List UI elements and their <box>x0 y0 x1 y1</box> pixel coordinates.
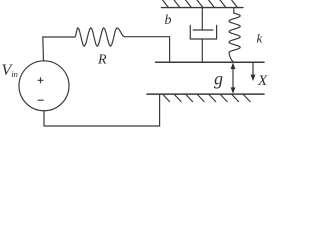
wire: source top to top rail corner <box>43 37 75 61</box>
bottom capacitor plate (fixed, hatched) <box>147 94 264 102</box>
displacement arrow X (downward) <box>251 63 256 81</box>
top capacitor plate (movable) <box>156 61 264 63</box>
damper b (dashpot) <box>190 8 216 63</box>
svg-text:k: k <box>257 31 263 46</box>
svg-text:Vin: Vin <box>2 62 18 79</box>
svg-text:X: X <box>257 73 268 89</box>
wire: bottom plate down-left to source bottom <box>44 94 160 126</box>
resistor R <box>75 28 125 46</box>
minus sign inside source <box>38 99 43 101</box>
wire: resistor to top plate (right corner down) <box>125 37 170 63</box>
voltage source Vin (circle) <box>19 61 69 111</box>
spring k <box>229 8 240 63</box>
svg-text:R: R <box>97 53 107 68</box>
svg-text:b: b <box>165 13 172 28</box>
gap arrow g (double-headed) <box>231 63 236 94</box>
plus sign inside source <box>38 78 43 83</box>
svg-text:g: g <box>214 69 223 89</box>
fixed support ceiling (line with hatching) <box>162 0 244 8</box>
